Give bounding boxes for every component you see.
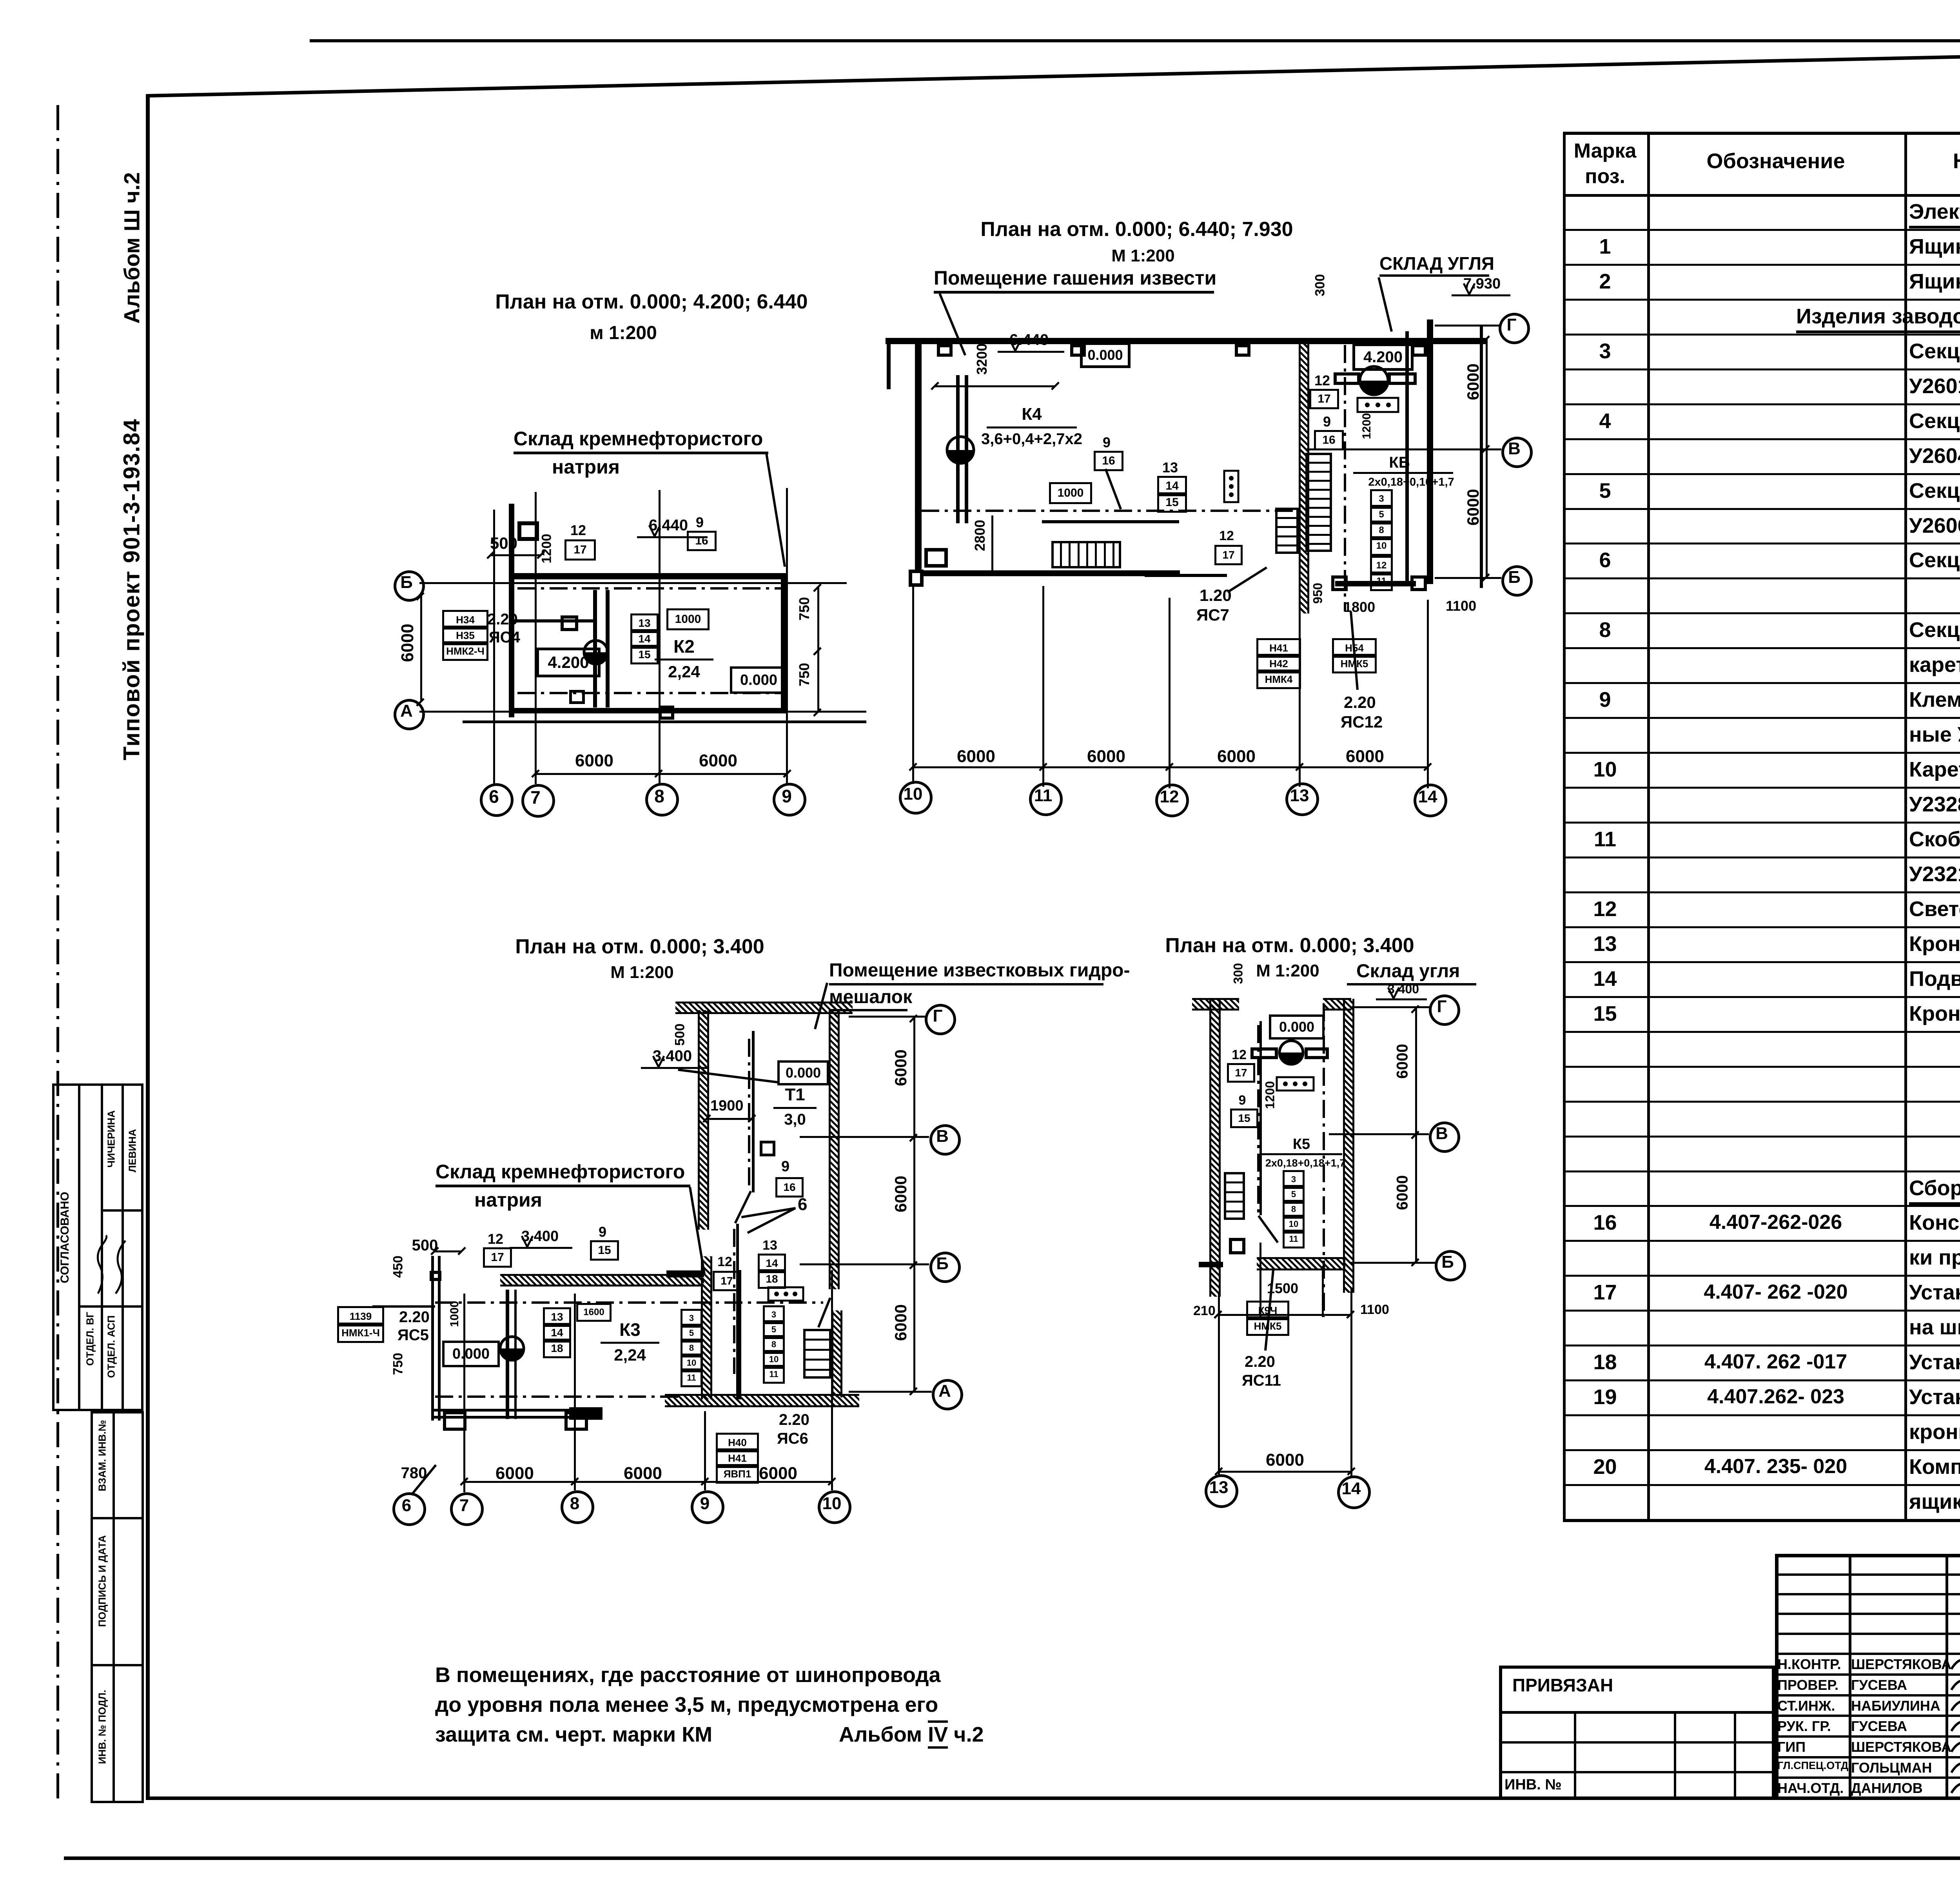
plan4 stairs — [1224, 1172, 1245, 1174]
album label rotated — [119, 13, 145, 483]
left crop dash-dot line — [56, 105, 59, 1802]
inner frame left line — [146, 94, 150, 1800]
plan3 store label — [436, 1160, 685, 1183]
plan2 1000 box — [1049, 482, 1092, 504]
plan3 pos ladder tall — [763, 1305, 785, 1324]
plan1 pos 13/14/15 stack — [630, 613, 659, 633]
plan4 level 0.000 box — [1269, 1014, 1325, 1040]
plan2 crane beam right — [1334, 372, 1360, 376]
plan2 bottom wall right section — [1335, 581, 1416, 586]
plan3 pos ladder wing — [681, 1309, 702, 1328]
plan4 pos 9/15 stack — [1230, 1093, 1254, 1108]
plan2 right pos ladder2 — [1370, 556, 1393, 575]
plan3 pos 13/14/18 stack — [758, 1238, 782, 1253]
plan4 3.400 flag — [1388, 982, 1419, 996]
title block signature rows — [1775, 1653, 1960, 1655]
plan1 dim 1200 rotated — [539, 314, 555, 784]
title block outer box — [1775, 1554, 1960, 1557]
plan3 pos 12/17 left — [713, 1254, 737, 1270]
plan3 level 3.400 flag — [653, 1047, 692, 1065]
plan3 right grid lines — [849, 1016, 925, 1018]
plan3 wing right wall — [736, 1270, 741, 1399]
plan4 pos ladder — [1283, 1170, 1305, 1189]
plan2 grid circle B2 — [1501, 565, 1533, 597]
plan4 K9 box stack — [1246, 1301, 1289, 1320]
plan2 coal store label — [1379, 253, 1494, 274]
plan1 grid circle A — [394, 699, 425, 730]
plan3 bottom grid circles — [392, 1492, 426, 1526]
plan2 dim 950 rotated — [1311, 358, 1325, 829]
plan2 left crane rail — [956, 375, 960, 523]
plan1 pos 9/16 stack — [687, 514, 713, 531]
plan2 thin wall right — [1405, 331, 1409, 584]
plan4 right wall hatched — [1343, 999, 1354, 1293]
plan3 wing bottom wall — [433, 1409, 602, 1412]
plan3 dim 500 rotated — [673, 800, 688, 1270]
plan4 top dim 300 — [1231, 739, 1246, 1209]
plan4 bottom hatched wall — [1257, 1257, 1345, 1270]
plan4 1500 dim — [1047, 1280, 1518, 1297]
plan1 right dim 750/750 — [817, 587, 819, 651]
plan1 building left wall — [509, 504, 514, 717]
plan3 tall left wall upper — [698, 1010, 709, 1230]
plan4 210 1100 dims — [1193, 1303, 1216, 1319]
plan2 thick wall right — [1427, 319, 1433, 584]
plan2 top wall tabs — [937, 344, 953, 347]
plan1 building bottom wall — [512, 708, 787, 713]
plan2 pos 9/16 right — [1314, 414, 1340, 430]
plan1 bottom lower wall line — [463, 720, 866, 723]
plan2 grid circle G — [1499, 313, 1530, 344]
plan4 equip box on wall — [1229, 1238, 1245, 1241]
plan1 level 4.200 box — [536, 648, 601, 677]
inner frame bottom line — [146, 1796, 1960, 1800]
plan2 dims 1800 1100 — [1344, 599, 1375, 615]
plan1 1000 box — [666, 608, 710, 630]
plan3 wing shaft line — [506, 1290, 509, 1419]
plan3 2.20 YaS6 — [779, 1411, 809, 1429]
plan2 pos 12/17 right — [1309, 372, 1335, 389]
plan3 stairs — [803, 1329, 831, 1331]
plan3 wing top hatched wall — [500, 1274, 704, 1287]
plan3 duct dash overlay — [748, 1039, 750, 1188]
plan2 interior line below trolley — [1042, 520, 1179, 523]
inner frame top line (tilted) — [146, 43, 1960, 98]
plan2 traffic light box — [1356, 397, 1399, 413]
plan4 dim 1200 rotated — [1263, 860, 1278, 1330]
plan4 title — [1054, 934, 1525, 957]
sheet top edge line — [310, 39, 1960, 42]
plan4 pos 12/17 stack — [1227, 1047, 1251, 1063]
plan2 bottom dim line — [913, 766, 1428, 768]
plan1 building top wall — [512, 573, 787, 579]
plan2 axis dash line mid — [1344, 345, 1346, 611]
plan3 traffic light box — [767, 1286, 804, 1302]
plan2 dim 2800 rotated — [972, 300, 988, 771]
plan3 grid circle G — [925, 1004, 956, 1035]
plan1 level 0.000 box — [730, 666, 788, 694]
plan2 level 6.440 flag — [1009, 331, 1049, 349]
plan2 room label leader — [938, 293, 966, 356]
parts table header texts — [1563, 139, 1647, 163]
plan2 hatched mid wall — [1299, 341, 1309, 613]
plan3 equip stack bottom — [716, 1433, 759, 1452]
plan4 black circle — [1278, 1039, 1305, 1066]
plan2 right grid lines — [1435, 325, 1499, 327]
plan2 trolley dash line — [921, 510, 1298, 512]
plan1 trolley dash line — [517, 587, 784, 590]
plan3 level 3.400 flag wing — [521, 1228, 559, 1245]
plan1 building left wall tab — [517, 521, 539, 525]
typical project label rotated — [119, 354, 145, 825]
plan3 tall right wall — [829, 1010, 840, 1289]
plan3 small box — [760, 1141, 775, 1143]
plan1 label leader — [765, 453, 786, 567]
plan1 black circle marker — [583, 639, 609, 666]
plan4 bottom grid circles — [1205, 1474, 1238, 1508]
plan3 bottom dim line — [464, 1481, 832, 1483]
plan1 grid circle B — [394, 570, 425, 602]
plan3 wing bottom boxes — [443, 1411, 466, 1414]
plan1 small square bottom — [659, 706, 674, 709]
plan2 right thin line — [1480, 325, 1483, 588]
plan4 grid circles — [1429, 994, 1460, 1026]
plan3 room label line1 — [829, 960, 1130, 981]
plan2 pos 12/17 mid — [1214, 528, 1239, 544]
plan2 3200 dim line — [935, 385, 1055, 387]
plan2 left black circle — [946, 435, 975, 465]
plan4 left bottom wall stub — [1199, 1262, 1223, 1267]
plan3 pos 12/17 stack wing — [483, 1231, 508, 1247]
inventory strip table — [91, 1411, 144, 1414]
plan4 bottom verticals — [1218, 1294, 1220, 1475]
plan4 bottom dim 6000 — [1219, 1471, 1351, 1473]
plan2 pos 9/16 stack — [1094, 434, 1120, 451]
plan2 bottom wall left section — [922, 570, 1180, 576]
plan2 bottom grid verticals — [912, 586, 914, 784]
plan2 small staircase — [1275, 508, 1299, 510]
plan2 dim 1200 rotated right — [1360, 191, 1374, 661]
plan2 right pos ladder — [1370, 489, 1393, 509]
plan2 main staircase — [1305, 453, 1332, 455]
plan2 dim 3200 rotated — [974, 124, 990, 594]
plan2 left wall footing — [909, 570, 924, 573]
plan1 building right wall — [781, 573, 786, 713]
plan1 title — [416, 290, 887, 314]
plan1 top dim 500 — [269, 534, 739, 553]
plan4 trolley line — [1259, 1021, 1262, 1215]
plan2 2800 dim line — [991, 515, 993, 572]
plan1 level 6.440 flag — [649, 517, 688, 534]
plan3 pos 13/14/18 stack wing — [543, 1307, 571, 1327]
plan2 K4 fraction — [797, 405, 1267, 424]
plan1 K2 fraction — [449, 636, 919, 657]
plan3 level 0.000 box — [777, 1060, 829, 1085]
plan4 crane beam — [1250, 1047, 1278, 1051]
plan1 left wall small boxes — [561, 615, 578, 619]
plan3 tall left wall lower — [701, 1256, 712, 1399]
sheet bottom edge line — [64, 1856, 1960, 1860]
plan3 bottom grid verticals — [463, 1294, 465, 1492]
plan2 right dim lines — [1486, 339, 1488, 577]
plan2 level 4.200 box — [1352, 343, 1414, 371]
plan3 tall right wall lower — [831, 1310, 842, 1397]
plan1 left dim 6000 — [420, 596, 422, 702]
plan2 traffic light vertical — [1223, 470, 1240, 503]
plan2 top wall — [886, 338, 1486, 344]
plan2 1.20 YaS7 — [1200, 586, 1232, 605]
plan2 bottom grid circles — [899, 781, 933, 815]
plan3 1900 dim — [710, 1098, 744, 1114]
plan4 traffic light box — [1276, 1076, 1315, 1092]
plan2 left equip box — [924, 548, 948, 552]
plan1 pos 12/17 stack — [564, 522, 592, 539]
plan3 right dim lines — [913, 1018, 915, 1391]
plan4 right dim — [1415, 1009, 1417, 1262]
plan1 inner shaft — [593, 590, 597, 708]
plan2 room label — [934, 267, 1216, 289]
plan4 axis dash line — [1323, 1003, 1325, 1317]
note text bottom left — [435, 1663, 941, 1687]
plan2 stairs left hall — [1051, 541, 1121, 543]
plan1 interior partition — [512, 619, 595, 622]
plan2 level 0.800 box — [1080, 342, 1131, 368]
plan3 wing inner dash line — [435, 1301, 823, 1304]
plan2 K6 fraction — [1164, 454, 1635, 472]
title block upper blank row lines — [1775, 1573, 1960, 1576]
title block signature columns — [1849, 1554, 1851, 1800]
plan3 1139 leader — [372, 1305, 435, 1308]
plan3 1139 box stack — [337, 1306, 384, 1326]
plan4 coal label — [1356, 960, 1460, 982]
plan3 dim 450 rotated — [391, 1032, 406, 1502]
plan3 pos 9/15 stack — [590, 1224, 615, 1240]
plan2 2.20 YaS12 — [1344, 693, 1376, 712]
plan3 wing left wall — [431, 1256, 434, 1421]
plan1 bottom grid verticals — [493, 510, 495, 784]
plan3 title — [405, 935, 875, 958]
privyazan box — [1499, 1666, 1775, 1669]
plan2 left wall stub — [887, 344, 891, 389]
parts table row contents — [1909, 200, 1960, 224]
parts table outer and column lines — [1563, 132, 1566, 1522]
plan3 pos 9 label — [781, 1158, 789, 1175]
plan4 top wall caps — [1192, 998, 1239, 1011]
approval strip table — [52, 1083, 143, 1086]
plan2 level 7.930 flag — [1463, 276, 1501, 292]
plan3 1000 rotated — [448, 1079, 461, 1549]
plan3 tall top wall — [675, 1002, 853, 1014]
plan3 wing bottom hatched block — [569, 1407, 603, 1420]
plan3 2.20 YaS5 — [399, 1308, 430, 1326]
plan1 bottom grid circles — [480, 783, 514, 817]
plan3 dim 750 rotated — [391, 1129, 406, 1599]
plan3 bottom hatched wall — [665, 1394, 859, 1407]
plan3 K3 fraction — [395, 1319, 865, 1340]
plan3 pos 6 label — [798, 1195, 807, 1214]
plan2 black circle right — [1358, 365, 1390, 396]
plan2 grid circle V — [1501, 437, 1533, 468]
parts table row lines — [1563, 229, 1960, 231]
plan3 500 dim top — [190, 1237, 660, 1254]
plan3 black circle — [499, 1335, 525, 1362]
plan4 left wall hatched — [1209, 999, 1221, 1297]
plan2 pos 13/14/15 stack — [1157, 459, 1183, 476]
plan1 room label — [514, 427, 763, 450]
plan3 level 0.000 box wing — [442, 1341, 500, 1367]
plan2 equip stack N54 — [1332, 638, 1377, 658]
plan1 left grid lines — [419, 582, 847, 584]
plan2 dim 300 rotated — [1313, 50, 1328, 521]
plan2 equip stack N41 — [1256, 638, 1301, 658]
plan4 2.20 YaS11 — [1245, 1353, 1275, 1371]
plan4 K5 fraction — [1066, 1136, 1537, 1153]
plan1 bottom dim line 6000+6000 — [535, 773, 787, 775]
plan3 wing junction wall — [666, 1270, 702, 1277]
plan1 left equip stack — [442, 610, 488, 630]
plan3 1600 box — [576, 1303, 612, 1322]
plan3 room label line2 — [829, 986, 912, 1008]
plan4 grid lines right — [1351, 1006, 1429, 1008]
plan3 T1 fraction — [560, 1085, 1030, 1105]
plan2 title — [902, 218, 1372, 241]
plan2 left wall on axis 10 — [915, 344, 922, 570]
plan3 duct line upper — [752, 1031, 755, 1192]
